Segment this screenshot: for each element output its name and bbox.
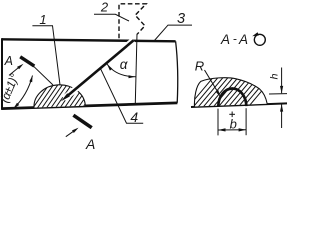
svg-text:A: A	[238, 32, 248, 47]
center mark +	[229, 112, 235, 118]
plate: right edge	[176, 41, 178, 103]
weld bead dome (hatched) in main view	[25, 81, 101, 113]
h dimension upper extension line	[269, 93, 287, 95]
svg-text:1: 1	[39, 12, 46, 27]
tool axis vertical line	[135, 34, 137, 104]
rotated-view symbol (circle with arrow)	[252, 32, 265, 45]
angle alpha arc	[107, 64, 136, 78]
svg-text:A: A	[85, 136, 95, 150]
leader line for label 2	[94, 14, 129, 21]
section view baseline	[191, 103, 287, 107]
view arrow A (bottom)	[66, 128, 79, 137]
plate: left edge	[1, 38, 3, 110]
svg-text:-: -	[233, 32, 237, 46]
view arrow A (top)	[9, 64, 24, 76]
(alpha±1)° dimension arc	[14, 76, 33, 109]
section stroke A (bottom)	[73, 115, 91, 128]
thick seam arrow (white casing)	[64, 40, 134, 98]
svg-text:h: h	[268, 73, 280, 79]
plate item 3: top edge	[2, 39, 176, 41]
thick seam arrow	[61, 40, 134, 101]
svg-text:A: A	[220, 32, 230, 47]
section stroke A (top)	[20, 57, 34, 66]
b dimension extension lines	[217, 109, 219, 136]
leader line for label 1 (ends at dome top)	[32, 26, 60, 85]
svg-text:4: 4	[130, 109, 138, 125]
svg-text:3: 3	[177, 11, 185, 27]
leader line for label 3	[154, 25, 192, 41]
b dimension line with arrows	[218, 128, 246, 131]
leader arrow for R	[205, 70, 221, 97]
weld bead cross-section (hatched)	[184, 74, 276, 112]
svg-text:b: b	[230, 117, 237, 132]
plate: bottom edge	[2, 103, 178, 109]
thick penetration semicircle R	[218, 88, 246, 106]
svg-text:A: A	[4, 54, 13, 68]
dashed tool item 2	[119, 4, 146, 38]
section line: thin line from stroke to dome apex	[34, 66, 54, 85]
leader line for label 4 (from seam line)	[100, 68, 143, 123]
svg-text:α: α	[120, 57, 129, 72]
h dimension arrows	[280, 68, 283, 129]
svg-text:2: 2	[100, 0, 109, 15]
svg-text:R: R	[195, 58, 204, 73]
